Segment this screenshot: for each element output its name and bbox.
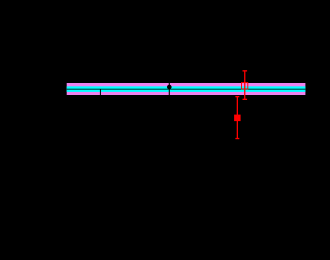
red open-square top cap	[243, 70, 248, 71]
red filled-square point error bar	[237, 96, 238, 138]
red open square marker	[242, 83, 248, 89]
error bar of black point	[169, 79, 170, 96]
red filled square marker	[234, 115, 241, 122]
central value line	[67, 88, 306, 91]
inner cyan band (1-sigma)	[67, 86, 306, 92]
red open-square point error bar	[244, 70, 245, 99]
outer violet band (2-sigma)	[67, 83, 306, 95]
red filled-square bottom cap	[235, 138, 239, 139]
black data point	[167, 85, 172, 90]
red open-square bottom cap	[243, 99, 248, 100]
error bar (hidden black point near x=100)	[100, 89, 101, 100]
red filled-square top cap	[235, 96, 239, 97]
